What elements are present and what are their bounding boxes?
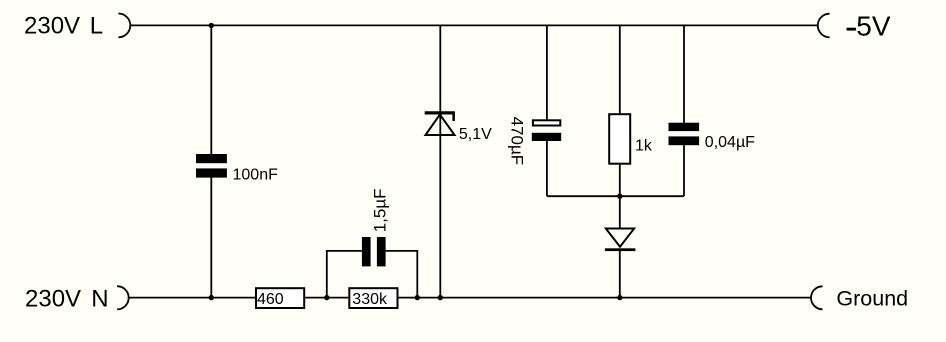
junction node top rail at C1 branch <box>209 23 214 28</box>
connector -5V <box>818 14 830 38</box>
wire capacitor 0,04uF top lead <box>683 25 685 122</box>
capacitor 0,04uF plates <box>669 123 700 146</box>
svg-text:1,5µF: 1,5µF <box>371 188 390 232</box>
resistor 330k body <box>349 288 397 308</box>
svg-text:5V: 5V <box>856 11 891 42</box>
wire zener diode branch <box>439 25 441 297</box>
wire capacitor 100nF top lead <box>210 25 212 154</box>
capacitor 1,5uF plates <box>362 237 386 266</box>
wire capacitor 1,5uF right leg <box>386 251 418 298</box>
wire capacitor 0,04uF bottom lead <box>683 145 685 196</box>
port label -5V <box>847 11 891 42</box>
svg-text:N: N <box>91 285 108 312</box>
wire capacitor 100nF bottom lead <box>210 177 212 297</box>
diode cathode bar <box>605 248 636 251</box>
zener diode cathode bar with hook <box>425 111 455 121</box>
port label 230V L <box>24 13 103 40</box>
svg-text:330k: 330k <box>352 291 388 308</box>
connector 230V L <box>118 14 130 38</box>
svg-text:L: L <box>90 13 103 40</box>
svg-text:Ground: Ground <box>836 287 908 311</box>
wire diode bottom lead <box>619 251 621 298</box>
wire bottom rail segment left <box>129 297 256 299</box>
wire capacitor 1,5uF left leg <box>327 251 362 298</box>
wire resistor 1k top lead <box>619 25 621 113</box>
zener diode triangle <box>426 115 455 136</box>
connector 230V N <box>117 286 129 309</box>
wire capacitor 470uF bottom lead <box>546 141 548 196</box>
junction node negative bus at diode <box>617 194 622 199</box>
wire negative bus connecting C3 R3 C4 bottoms <box>547 195 684 197</box>
svg-text:100nF: 100nF <box>233 166 279 183</box>
resistor 460 body <box>256 288 304 308</box>
svg-text:0,04µF: 0,04µF <box>705 134 755 151</box>
port label 230V N <box>25 285 109 312</box>
wire resistor 1k bottom lead <box>619 165 621 197</box>
svg-text:1k: 1k <box>635 137 653 154</box>
junction node zener bottom <box>438 295 443 300</box>
svg-text:230V: 230V <box>25 285 81 312</box>
wire capacitor 470uF top lead <box>546 25 548 119</box>
capacitor 470uF negative plate <box>532 133 561 141</box>
connector Ground <box>811 286 822 309</box>
diode triangle <box>606 229 634 247</box>
wire diode top lead <box>619 196 621 229</box>
svg-text:230V: 230V <box>24 13 80 40</box>
capacitor 470uF positive plate <box>533 120 560 125</box>
resistor 1k body <box>609 114 630 164</box>
svg-text:470µF: 470µF <box>508 117 527 166</box>
svg-text:460: 460 <box>257 291 284 308</box>
capacitor 100nF plates <box>196 154 227 178</box>
svg-text:5,1V: 5,1V <box>459 126 492 143</box>
junction node between 460 and 330k <box>324 295 329 300</box>
junction node diode bottom <box>617 295 622 300</box>
junction node right of 330k <box>415 295 420 300</box>
wire bottom rail segment between 460 and 330k <box>305 297 348 299</box>
junction node bottom rail at C1 branch <box>209 295 214 300</box>
wire top rail L to -5V <box>130 24 818 26</box>
wire bottom rail segment right <box>399 297 811 299</box>
